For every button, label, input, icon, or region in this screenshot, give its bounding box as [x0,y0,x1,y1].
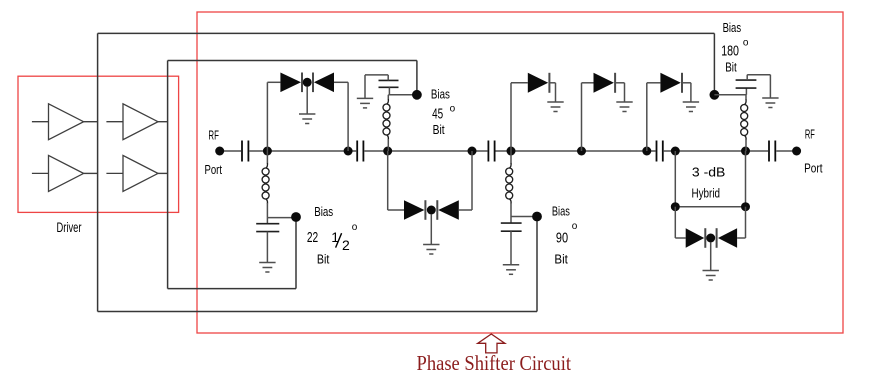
node B main line junction 2 [344,147,353,156]
amplifier A2 [106,104,158,140]
wire 22.5 bypass ground stem [266,232,268,263]
capacitor C4 [657,141,663,162]
diode D4 cathode bar [614,73,616,93]
wire 180 bypass to ground horizontal [747,74,770,76]
wire 45 bias horizontal [388,94,417,96]
wire A2 output [158,121,168,123]
wire 45 shunt left drop [387,151,389,210]
node A main line junction 1 [263,147,272,156]
wire 45 bypass bottom stub [388,87,390,95]
wire 22.5 midpoint ground stem [306,87,308,115]
node F main line junction 6 [577,147,586,156]
node C main line junction 3 [383,147,392,156]
wire 22.5 bias horizontal [267,217,296,219]
wire D5 to ground [682,82,691,84]
amplifier A3 [32,155,84,191]
svg-text:o: o [352,222,358,233]
ground 180 bypass [762,98,778,108]
ground 22.5 diode midpoint [299,114,315,124]
node 180 diode midpoint [706,234,715,243]
wire D3 stub [511,82,528,84]
inductor L3 [506,151,513,217]
amplifier A4 [106,155,158,191]
svg-text:Bias: Bias [314,205,333,219]
svg-text:Bias: Bias [552,205,570,219]
diode D2b shunt [438,200,459,220]
wire 45 bypass ground drop [364,75,366,99]
capacitor C1 [242,141,248,162]
node D main line junction 4 [468,147,477,156]
svg-text:Phase Shifter Circuit: Phase Shifter Circuit [417,351,572,375]
node E main line junction 5 [507,147,516,156]
svg-text:Driver: Driver [57,220,82,235]
wire 45 bypass top stub [387,75,389,81]
capacitor 90 bypass [501,217,522,232]
svg-text:Bias: Bias [431,88,450,102]
node 45 bias terminal [412,90,422,100]
svg-text:22: 22 [307,229,318,246]
wire D4 to ground [615,82,624,84]
ground 45 diode midpoint [423,245,439,255]
wire 90 bias horizontal [511,216,537,218]
node 180 bias terminal [710,90,720,100]
wire main line segments [220,150,797,152]
svg-text:RF: RF [208,128,219,142]
wire 180 bypass ground drop [769,75,771,98]
amplifier A1 [32,104,84,140]
diode D6a cathode bar [704,228,706,248]
wire 45 bypass to ground horizontal [365,74,388,76]
capacitor 180 bypass [736,80,757,95]
wire 180 bias horizontal [714,94,746,96]
ground D5 [683,102,699,112]
wire D4 stub [582,82,594,84]
wire 22.5 bit right stub [334,81,348,83]
svg-text:3 -dB: 3 -dB [692,166,726,180]
wire hybrid cross connection [675,206,745,208]
driver boundary box [18,76,179,212]
inductor L1 [262,151,269,218]
wire 180 shunt right stub [737,237,745,239]
svg-text:Port: Port [804,162,823,176]
diode D5 [660,73,680,93]
wire D5 stub [647,82,661,84]
diode D3 assembly [511,73,564,151]
wire bias net 2 top horizontal to 45 bit [168,60,417,62]
diode D3 cathode bar [548,73,550,93]
ground 45 bypass [357,98,373,108]
wire 22.5 bit right riser [347,82,349,151]
wire D5 riser [646,83,648,151]
capacitor C5 [769,141,775,162]
wire A4 output [158,172,168,174]
wire bias net 2 drop to 45 bias node [416,61,418,95]
diode D2a cathode bar [424,200,426,220]
callout arrow [478,334,505,353]
svg-text:45: 45 [432,106,443,123]
svg-text:o: o [743,37,749,48]
label 1/2 fraction [331,229,350,253]
node hybrid right [741,202,750,211]
wire A1 output [84,121,98,123]
node I main line junction 9 [741,147,750,156]
wire bias net 1 bottom horizontal to 90 bit [98,311,537,313]
ground D3 [547,102,563,112]
svg-text:o: o [450,104,456,115]
wire bias net 1 riser to 90 bias node [536,217,538,312]
wire bias net 1 drop to 180 bias node [713,33,715,94]
diode D1b cathode bar [312,73,314,93]
ground 180 diode midpoint [703,271,719,281]
diode D1a cathode bar [301,73,303,93]
node 22.5 diode midpoint [303,78,312,87]
inductor L4 [741,95,748,151]
diode D4 [594,73,614,93]
wire A3 output [84,172,98,174]
svg-text:180: 180 [721,44,739,60]
node 22.5 bias terminal [291,212,301,222]
wire bias net 2 vertical through driver [167,61,169,289]
wire hybrid left leg [674,151,676,207]
svg-text:Bit: Bit [554,252,568,266]
wire 180 shunt left drop [674,207,676,238]
node G main line junction 7 [642,147,651,156]
svg-text:Port: Port [205,163,223,177]
capacitor 45 bypass [379,80,399,87]
wire bias net 1 top horizontal to 180 bit [98,32,715,34]
diode D6a shunt [686,228,705,248]
wire bias net 2 riser to 22.5 bias node [295,217,297,289]
wire 45 shunt right stub [459,209,472,211]
phase shifter circuit boundary box [197,12,843,333]
wire bias net 2 bottom horizontal to 22.5 bit [168,288,296,290]
svg-text:Bias: Bias [723,21,742,35]
diode D5 assembly [647,73,699,151]
diode D2a shunt [404,200,424,220]
node 45 diode midpoint [427,206,436,215]
svg-text:o: o [572,221,578,232]
wire 90 bypass ground stem [510,231,512,265]
node RF output port [792,147,801,156]
wire 22.5 bit left stub [267,81,280,83]
diode D6b shunt [718,228,737,248]
diode D3 [528,73,548,93]
ground D4 [616,102,632,112]
wire 180 midpoint ground stem [710,242,712,270]
diode D4 assembly [582,73,633,151]
wire 45 midpoint ground stem [430,214,432,244]
node H main line junction 8 [671,147,680,156]
wire D3 riser [510,83,512,151]
svg-text:2: 2 [342,237,350,253]
svg-text:Hybrid: Hybrid [692,187,721,201]
wire 45 shunt left stub [388,209,404,211]
ground 22.5 bypass [259,263,275,273]
diode D2b cathode bar [436,200,438,220]
node RF input port [215,147,224,156]
capacitor C2 [357,141,363,162]
wire 180 bypass top stub [746,75,748,80]
diode D1a series [280,73,301,93]
wire 180 shunt right drop [745,207,747,238]
wire bias net 1 vertical through driver [97,33,99,311]
wire 22.5 bit left riser [266,82,268,151]
inductor L2 [383,95,390,151]
diode D6b cathode bar [716,228,718,248]
diode D5 cathode bar [681,73,683,93]
wire hybrid right leg [745,151,747,207]
svg-text:Bit: Bit [433,123,445,137]
wire 45 shunt right drop [471,151,473,210]
node 90 bias terminal [532,212,542,222]
node hybrid left [671,202,680,211]
wire 180 shunt left stub [675,237,685,239]
wire D3 to ground [549,82,555,84]
svg-text:90: 90 [556,230,568,247]
ground 90 bypass [503,265,519,275]
diode D1b series [314,73,334,93]
svg-text:Bit: Bit [725,61,737,75]
capacitor 22.5 bypass [256,218,279,232]
svg-text:Bit: Bit [317,252,330,266]
wire D4 riser [581,83,583,151]
svg-text:RF: RF [805,128,815,142]
capacitor C3 [488,141,494,162]
